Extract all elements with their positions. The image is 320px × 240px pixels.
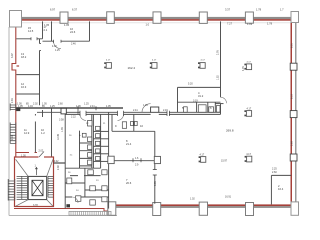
block B wc divider [133,114,135,131]
svg-text:3.07: 3.07 [11,53,14,58]
bottom column 4 [246,203,254,216]
svg-text:1.25: 1.25 [50,105,55,108]
top column 3 [153,12,161,23]
wc wall y168 [65,167,100,169]
svg-text:4.76: 4.76 [242,66,245,71]
left-mid room bottom red wall [16,152,37,154]
stairwell diagonals [16,159,53,206]
svg-text:1.7: 1.7 [280,8,284,12]
svg-text:4.17: 4.17 [246,153,251,156]
svg-text:16.3: 16.3 [21,85,27,89]
right wall pilaster 2 [290,111,297,118]
radiator ladder upper [10,123,16,144]
right bottom room top wall [271,174,291,176]
door jamb x42.5 [42,110,44,117]
svg-text:1.25: 1.25 [84,103,89,106]
wall room2 bottom [43,40,90,42]
svg-text:3.78: 3.78 [33,204,38,207]
svg-text:2.02: 2.02 [39,150,44,153]
texts: dims middle [106,60,252,64]
block A divider wall [178,101,221,103]
svg-text:269.8: 269.8 [226,129,234,133]
door arcs [54,41,227,203]
texts: wc labels [68,123,106,192]
svg-text:3.37: 3.37 [225,8,231,12]
corridor door box [61,108,66,114]
svg-text:31.2: 31.2 [198,94,204,98]
svg-text:2.1: 2.1 [44,28,48,32]
long wall upper line [37,111,221,113]
svg-text:1.25: 1.25 [55,49,60,52]
wc stall divider 3 [93,145,108,147]
svg-text:2.60: 2.60 [272,171,277,174]
wc cluster inner vertical [100,114,102,168]
svg-text:15.97: 15.97 [221,160,228,163]
svg-text:4.02: 4.02 [54,160,59,163]
stair flight left [17,176,28,199]
svg-text:2.46: 2.46 [71,43,76,46]
wc stall divider 2 [93,138,108,140]
right wall outer line [295,23,297,207]
top-left corner pilaster [10,11,22,28]
svg-text:2.02: 2.02 [33,103,38,106]
svg-text:1.0: 1.0 [146,23,150,27]
wc fixtures [67,105,206,205]
free column A1 [106,63,252,164]
svg-text:2.16: 2.16 [11,135,14,140]
bottom-right corner pilaster [291,202,299,215]
block A small fixtures [184,106,221,113]
corridor door leaf [151,107,159,112]
elevator cross [32,180,43,195]
svg-text:5.20: 5.20 [188,83,193,86]
svg-text:1.78: 1.78 [267,21,273,25]
svg-text:16.91: 16.91 [225,196,232,199]
svg-text:3.05: 3.05 [154,181,157,186]
right wall pilaster 1 [290,63,297,70]
svg-text:2.76: 2.76 [217,50,220,55]
top column 1 [60,12,68,23]
free column axis marks [104,62,246,162]
wc wall y197 [65,196,108,198]
dark fixture at wc bottom [66,204,70,207]
svg-text:1.05: 1.05 [21,154,26,157]
block A left wall [177,87,179,112]
top column 4 [199,12,207,23]
elevator inner [32,180,43,195]
wall left column vertical [39,39,41,105]
svg-text:1.35: 1.35 [61,127,64,132]
svg-text:7.27: 7.27 [227,21,233,25]
svg-text:10: 10 [140,124,143,128]
svg-text:1.05: 1.05 [143,104,148,107]
svg-text:12.05: 12.05 [57,133,60,140]
corridor bottom wall [54,162,66,164]
block A inner vertical 1 [196,102,198,112]
svg-text:1.2: 1.2 [41,131,45,135]
wc cluster right wall [108,112,110,208]
wc left dividers [80,143,92,166]
top wall red inner line [16,19,291,21]
wall left room3 bottom [16,74,39,76]
svg-text:2.60: 2.60 [58,103,63,106]
corridor wall solid block [16,107,20,111]
wc wall y175.6 [70,175,101,177]
wc vertical x84.9 [84,168,86,197]
block A stub wall [216,103,224,105]
svg-text:6.37: 6.37 [72,8,78,12]
wc wall y183 [65,182,85,184]
wc left stall wall [79,131,81,169]
svg-text:6.97: 6.97 [50,8,56,12]
door jamb ticks [31,37,169,175]
block A top wall [178,86,221,88]
top wall faint inner line [22,21,292,24]
corridor wall upper [16,107,123,109]
svg-text:1.06: 1.06 [76,105,81,108]
wall left-mid room right [51,108,53,157]
top column 5 [245,12,253,23]
right wall pilaster 3 [290,154,297,161]
niche tick [17,65,20,66]
svg-text:1.78: 1.78 [256,8,262,12]
svg-text:4.17: 4.17 [247,108,252,111]
svg-text:2.41: 2.41 [133,109,138,112]
wc cluster center double wall [92,114,94,168]
hall partition wall x220.5 [220,21,222,114]
radiator ladder small [10,104,16,111]
svg-text:8.01: 8.01 [291,43,294,48]
svg-text:1.05: 1.05 [106,105,111,108]
svg-text:18.2: 18.2 [21,55,27,59]
corridor door arc [142,104,151,113]
wc stall divider 4 [93,153,108,155]
wall room1 right [42,21,44,38]
svg-text:2.46: 2.46 [11,98,14,103]
stairwell door leaf [39,152,44,158]
wall closet right [51,21,53,41]
svg-text:2.41: 2.41 [90,105,95,108]
lower-left section bottom red wall [14,209,108,211]
block A inner vertical 2 [207,102,209,112]
svg-text:4.17: 4.17 [200,154,205,157]
texts: rotated dims [11,43,293,186]
wall room2 right [89,21,91,41]
long wall lower line [65,113,220,115]
svg-text:14.5: 14.5 [28,29,34,33]
svg-text:1.05: 1.05 [64,23,70,27]
stair arrow [35,167,37,175]
texts: hall labels [128,66,234,133]
right wall red inner line [290,21,292,205]
svg-text:2.02: 2.02 [57,165,60,170]
svg-text:3.19: 3.19 [193,99,198,102]
wc stall divider 5 [93,160,108,162]
svg-text:1.02: 1.02 [190,198,195,201]
svg-text:4.04: 4.04 [28,105,33,108]
exterior steps hatch strip [69,211,111,215]
top-right corner pilaster [291,12,299,23]
svg-text:162.4: 162.4 [128,66,136,70]
texts: top dims [44,8,284,27]
bottom column 3 [199,202,207,215]
svg-text:2.19: 2.19 [163,109,168,112]
texts: room labels top-left [21,25,284,191]
svg-text:1.03: 1.03 [247,22,253,26]
svg-text:1.52: 1.52 [217,75,220,80]
outer offset line left [8,27,10,216]
svg-text:8.10: 8.10 [291,94,294,99]
wc cluster left wall [64,112,66,208]
bottom column 1 (step) [108,202,116,216]
svg-text:21.4: 21.4 [126,142,132,146]
block A inner vertical 3 [214,102,216,112]
exterior ladder lower [8,179,15,201]
top wall [22,17,292,19]
svg-text:2.22: 2.22 [71,116,76,119]
svg-text:1C: 1C [70,155,73,157]
svg-text:24.6: 24.6 [70,30,76,34]
block B upper wall [112,130,155,132]
svg-text:3.58: 3.58 [59,118,64,121]
bottom wall gray band [116,206,291,208]
svg-text:12.9: 12.9 [24,131,30,135]
bottom column 2 [153,203,161,216]
top column 2 [107,12,115,24]
bottom wall red line [116,204,291,206]
wall left-mid room divider [34,114,36,153]
wall left room4 bottom [16,93,39,95]
svg-text:2.60: 2.60 [291,141,294,146]
right bottom room left wall [270,175,272,204]
elevator outer [28,176,47,199]
stair flight right [48,176,54,197]
wc wall y190 [85,189,109,191]
block B mid wall [109,160,155,162]
wc stall divider 1 [93,130,108,132]
left wall red inner line with niche [12,21,16,157]
svg-text:20.6: 20.6 [126,181,132,185]
stairwell red box [15,157,54,207]
svg-text:16.4: 16.4 [278,187,284,191]
svg-text:4.02: 4.02 [52,45,57,48]
outer offset line bottom-left [9,215,117,217]
block B right wall [154,131,156,204]
block B wc left wall [111,114,113,131]
wall room1 bottom [16,38,42,40]
